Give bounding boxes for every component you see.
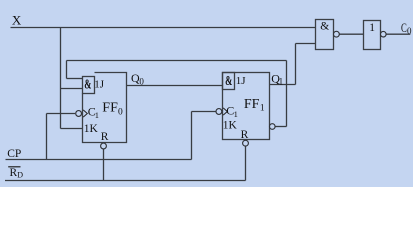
wire CP riser to FF0 clock [46,114,48,160]
svg-text:R: R [101,131,109,143]
NAND gate output bubble [334,31,340,37]
svg-text:R: R [10,167,18,179]
svg-text:0: 0 [118,107,123,117]
wire feedback left riser [66,61,68,79]
svg-text:FF: FF [102,101,118,116]
FF1 reset bubble [243,140,249,146]
wire RD horizontal [5,180,246,182]
wire FF1 clock stub [192,111,216,113]
wire X input horizontal [11,27,316,29]
svg-text:0: 0 [139,77,144,87]
wire Q1bar bubble to riser [275,126,286,128]
svg-text:CP: CP [7,148,21,160]
FF0 reset bubble [101,143,107,149]
inverter U2 body [364,21,381,50]
svg-text:0: 0 [407,26,412,36]
svg-text:X: X [12,13,22,28]
wire feedback stub into FF0 AND-box upper input [67,78,83,80]
svg-text:C: C [401,20,407,35]
svg-text:1J: 1J [94,79,105,91]
svg-text:&: & [84,77,91,92]
wire X to FF0 AND-box lower input [61,88,83,90]
wire NOT gate output to C0 [386,33,410,35]
svg-text:1: 1 [95,110,99,120]
wire Q1 output horizontal [270,84,296,86]
inverter output bubble [381,31,387,37]
svg-text:1J: 1J [236,75,247,87]
svg-text:1: 1 [369,22,375,34]
wire Q1 top into AND gate [296,43,316,45]
wire FF0 clock stub [47,113,76,115]
svg-text:D: D [17,171,23,180]
flip-flop FF0 body [83,73,127,143]
wire Q0 to FF1 J input [127,85,223,87]
svg-text:&: & [320,21,329,33]
FF1 J-input AND box [223,73,235,90]
wire feedback long horizontal from Q1bar [67,60,287,62]
FF0 clock bubble [76,111,82,117]
wire CP horizontal [6,159,192,161]
Q1bar output bubble [270,124,276,130]
svg-text:&: & [225,73,232,88]
svg-text:1: 1 [234,109,238,119]
svg-text:FF: FF [244,97,260,112]
svg-text:1: 1 [279,77,284,87]
flip-flop FF1 body [223,73,270,140]
wire Q1 riser to AND gate [295,44,297,85]
FF0 clock edge triangle [83,110,87,117]
wire FF0 reset riser [103,149,105,181]
svg-text:1K: 1K [84,123,99,135]
FF1 clock edge triangle [223,108,227,115]
svg-text:1: 1 [260,104,265,114]
wire CP riser to FF1 clock [191,112,193,160]
wire FF1 reset riser [245,146,247,180]
NAND gate U1 body [316,20,334,50]
FF0 J-input AND box [83,77,95,94]
wire feedback right drop to Q1bar [286,61,288,127]
svg-text:R: R [241,129,249,141]
wire X to FF0 1K input [61,128,83,130]
svg-text:1K: 1K [223,120,238,132]
FF1 clock bubble [216,109,222,115]
wire X vertical drop [60,28,62,129]
wire AND gate output [339,33,363,35]
